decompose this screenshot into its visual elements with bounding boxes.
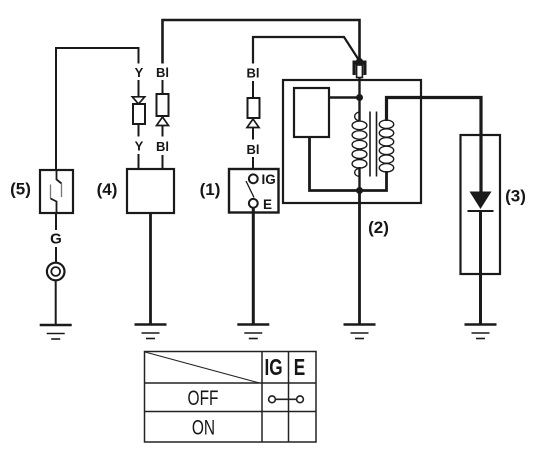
wire igniter to primary coil top <box>329 96 360 99</box>
wire component 1 to ground <box>252 208 255 325</box>
fuse on Bl branch <box>157 94 169 116</box>
svg-text:Bl: Bl <box>156 65 169 80</box>
wire Y branch below fuse <box>138 124 140 137</box>
wire from node above component 5 to Y branch <box>56 48 139 170</box>
pickup ring outer circle <box>47 263 65 281</box>
diode in component 3 <box>470 192 492 210</box>
component 1 box (ignition switch) <box>229 169 279 213</box>
switch lever in component 1 <box>246 181 254 198</box>
connector at top of component 2 <box>353 61 367 78</box>
wire component 1 branch into box <box>252 157 254 175</box>
component 4 box <box>127 169 174 213</box>
wire Y branch upper segment <box>138 80 140 97</box>
svg-text:E: E <box>263 197 272 212</box>
connector arrow (up) on component 1 branch <box>247 119 259 128</box>
terminal IG circle <box>249 174 258 183</box>
wire component 1 branch upper segment <box>252 81 254 98</box>
wire Bl branch below arrow <box>162 126 164 137</box>
wire igniter bottom to node <box>310 137 360 191</box>
transformer core <box>370 112 377 177</box>
ground for component 5 <box>40 325 72 339</box>
wire G to pickup ring <box>55 247 57 263</box>
svg-text:OFF: OFF <box>188 385 219 409</box>
ground for component 4 <box>135 325 167 339</box>
wire primary coil bottom lead <box>358 167 360 191</box>
svg-text:Bl: Bl <box>247 66 260 81</box>
svg-text:(5): (5) <box>10 180 31 199</box>
svg-text:E: E <box>294 354 305 380</box>
wire secondary top lead out to component 3 <box>387 98 482 193</box>
fuse on component 1 branch <box>248 98 260 118</box>
component 5 box <box>40 170 73 213</box>
wire Bl branch into component 4 <box>162 155 164 169</box>
wire Bl branch upper segment <box>162 80 164 94</box>
ground for component 1 <box>237 325 269 339</box>
igniter box inside component 2 <box>294 88 329 137</box>
junction node bottom of primary <box>356 187 363 194</box>
contact symbol in OFF row <box>269 396 304 403</box>
terminal E circle <box>249 199 258 208</box>
junction node top of primary <box>356 94 363 101</box>
svg-text:(4): (4) <box>97 180 118 199</box>
wire component 4 to ground <box>149 213 152 325</box>
wire component 1 branch below arrow <box>252 128 254 140</box>
wire connector into component 2 <box>358 78 360 122</box>
ground for component 2 <box>344 325 376 339</box>
fuse on Y branch <box>133 104 145 124</box>
component 2 box (ignition coil assembly) <box>283 80 421 203</box>
secondary coil winding <box>379 120 393 172</box>
connector arrow (down) on Y branch <box>132 97 144 104</box>
ground for component 3 <box>465 325 497 339</box>
diode cathode bar <box>468 210 494 212</box>
svg-text:Y: Y <box>135 65 144 80</box>
component 3 box <box>461 135 501 274</box>
svg-text:ON: ON <box>192 415 215 439</box>
wire secondary bottom lead to node <box>362 171 387 191</box>
pickup ring inner circle <box>51 267 60 276</box>
table header diagonal <box>145 352 260 383</box>
sensor element inside component 5 <box>51 170 62 213</box>
switch state table <box>145 352 317 443</box>
svg-text:(3): (3) <box>505 186 526 205</box>
wire diode to ground <box>479 211 482 325</box>
wire component 2 node to ground <box>358 191 361 325</box>
wire pickup ring to ground <box>55 280 57 325</box>
svg-text:(1): (1) <box>200 180 221 199</box>
svg-text:G: G <box>50 231 62 248</box>
svg-text:IG: IG <box>264 355 282 381</box>
connector arrow (up) on Bl branch <box>157 117 169 126</box>
wire top rail from Bl branch to connector of component 2 <box>163 20 360 64</box>
junction dot on connector <box>356 58 363 65</box>
svg-text:Bl: Bl <box>156 139 169 154</box>
svg-text:Y: Y <box>135 139 144 154</box>
svg-text:(2): (2) <box>368 218 389 237</box>
wire Y branch into component 4 <box>138 154 140 169</box>
wire second rail from component 1 branch to connector of component 2 <box>253 37 360 64</box>
primary coil winding <box>352 112 367 177</box>
wire component 5 lower segment <box>55 213 57 230</box>
svg-text:IG: IG <box>262 172 276 187</box>
svg-text:Bl: Bl <box>247 142 260 157</box>
